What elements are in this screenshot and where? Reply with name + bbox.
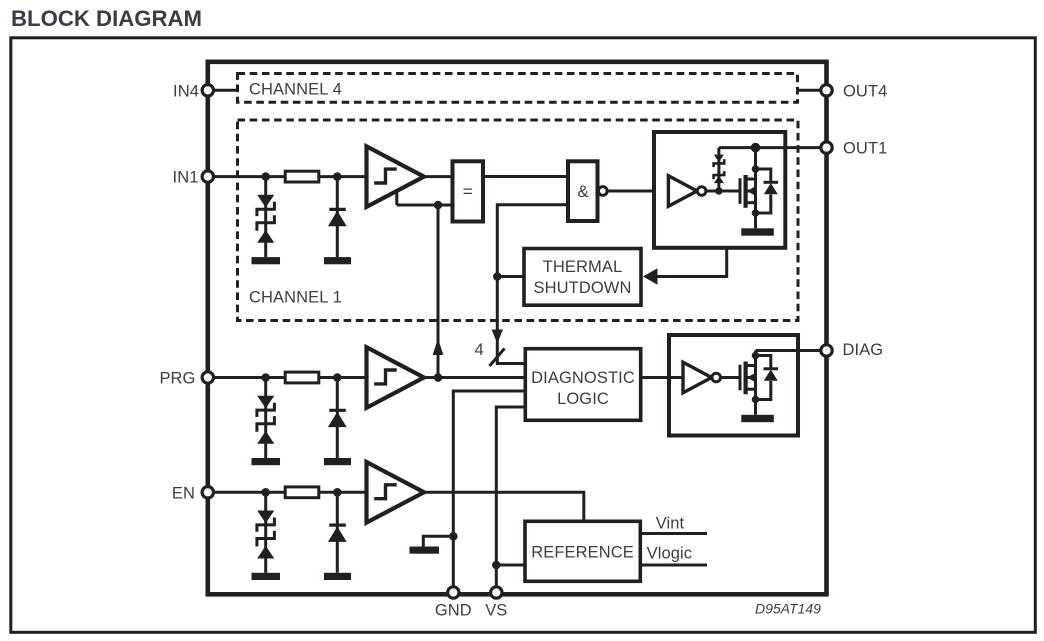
zener pair PRG clamp — [257, 378, 275, 459]
bus slash — [490, 349, 505, 367]
pin DIAG — [821, 345, 832, 356]
svg-text:=: = — [463, 182, 473, 201]
gate zener pair OUT1 — [714, 148, 725, 191]
wire IN4 to channel 4 — [208, 89, 238, 92]
ground (zener EN) — [252, 573, 281, 580]
diagnostic logic block — [525, 349, 640, 421]
wire IN1 schmitt feedback — [397, 191, 453, 205]
wire EN schmitt out to reference — [423, 492, 584, 521]
zener pair IN1 clamp — [257, 177, 275, 258]
node drain DIAG — [752, 352, 760, 360]
wire channel 4 to OUT4 — [797, 89, 827, 92]
svg-text:DIAGNOSTIC: DIAGNOSTIC — [531, 369, 635, 387]
channel 1 dashed box — [238, 120, 799, 321]
mosfet DIAG — [740, 351, 756, 415]
svg-text:IN1: IN1 — [173, 169, 199, 187]
svg-text:Vint: Vint — [656, 515, 685, 533]
ground (zener IN1) — [252, 257, 281, 264]
resistor PRG series — [285, 372, 319, 383]
node OUT1 drain junction — [751, 143, 761, 153]
IC boundary — [208, 62, 827, 595]
comparator block = — [453, 161, 484, 221]
node source OUT1 — [752, 209, 760, 217]
wire drain to OUT1 pin — [719, 146, 827, 149]
svg-text:IN4: IN4 — [173, 82, 199, 100]
inverter bubble DIAG — [712, 373, 721, 382]
inverter DIAG — [683, 362, 712, 393]
node GND stub junction — [449, 532, 458, 541]
arrowhead bus down — [492, 330, 503, 344]
AND gate & — [568, 161, 598, 221]
node drain OUT1 — [752, 165, 760, 173]
ground (zener PRG) — [252, 458, 281, 465]
node IN1 junction 2 — [333, 172, 342, 181]
pin OUT4 — [821, 85, 832, 96]
arrowhead program line up — [433, 339, 444, 356]
arrowhead into thermal shutdown — [643, 268, 658, 284]
ground (driver OUT1) — [741, 228, 774, 235]
inverter OUT1 — [668, 176, 697, 207]
svg-text:4: 4 — [475, 341, 484, 359]
thermal shutdown block — [524, 249, 641, 306]
output driver block DIAG — [669, 335, 798, 436]
svg-text:VS: VS — [485, 602, 507, 620]
schmitt trigger EN — [367, 462, 425, 523]
diode EN clamp — [328, 492, 347, 573]
wire AND to driver — [607, 190, 668, 193]
output driver block OUT1 — [654, 132, 785, 248]
node feedback junction — [434, 201, 443, 210]
pin IN4 — [202, 85, 213, 96]
node VS reference junction — [492, 561, 501, 570]
node EN junction 2 — [333, 488, 342, 497]
svg-text:&: & — [577, 182, 589, 201]
wire comparator to AND gate — [483, 175, 568, 178]
resistor IN1 series — [285, 171, 319, 182]
wire driver to thermal shutdown — [656, 248, 727, 277]
zener pair EN clamp — [257, 492, 275, 573]
wire VS to reference — [496, 564, 525, 567]
node source DIAG — [752, 396, 760, 404]
node PRG junction 2 — [333, 373, 342, 382]
mosfet OUT1 — [740, 148, 756, 229]
inverter bubble OUT1 — [697, 187, 706, 196]
body diode OUT1 — [756, 169, 779, 213]
svg-text:EN: EN — [172, 484, 195, 502]
wire thermal junction to thermal shutdown — [497, 275, 524, 278]
svg-text:BLOCK DIAGRAM: BLOCK DIAGRAM — [11, 6, 202, 31]
svg-text:DIAG: DIAG — [843, 341, 884, 359]
node IN1 junction 1 — [261, 172, 270, 181]
wire GND rail — [453, 391, 525, 593]
wire program line down — [437, 205, 440, 378]
wire PRG schmitt out to diagnostic logic — [423, 376, 525, 379]
svg-text:REFERENCE: REFERENCE — [531, 544, 634, 562]
ground (driver DIAG) — [741, 415, 774, 422]
schmitt trigger PRG — [367, 347, 425, 408]
diode PRG clamp — [328, 378, 347, 459]
wire drain to DIAG pin — [756, 349, 827, 352]
svg-text:GND: GND — [435, 602, 472, 620]
wire Vlogic output — [640, 564, 707, 567]
ground (diode IN1) — [324, 257, 351, 264]
svg-text:PRG: PRG — [159, 370, 195, 388]
channel 4 dashed box — [238, 74, 798, 103]
schmitt trigger IN1 — [367, 146, 425, 207]
reference block — [525, 521, 640, 581]
wire inverter to gate OUT1 — [697, 190, 740, 193]
svg-text:CHANNEL 4: CHANNEL 4 — [249, 81, 342, 99]
body diode DIAG — [756, 356, 779, 400]
AND output bubble — [598, 187, 607, 196]
wire diagnostic bus down — [497, 277, 525, 364]
wire diagnostic logic to DIAG driver — [641, 376, 683, 379]
node PRG junction 1 — [261, 373, 270, 382]
svg-text:CHANNEL 1: CHANNEL 1 — [249, 289, 342, 307]
node thermal junction — [493, 272, 502, 281]
pin VS — [491, 587, 502, 598]
svg-text:THERMAL: THERMAL — [543, 258, 623, 276]
ground stub internal — [423, 536, 453, 546]
pin EN — [202, 487, 213, 498]
wire inverter to gate DIAG — [712, 376, 740, 379]
wire AND lower input — [497, 205, 568, 277]
svg-text:SHUTDOWN: SHUTDOWN — [534, 279, 632, 297]
svg-text:OUT4: OUT4 — [843, 82, 887, 100]
pin PRG — [202, 372, 213, 383]
wire PRG input rail — [208, 376, 367, 379]
ground (diode EN) — [324, 573, 351, 580]
wire IN1 input rail — [208, 175, 367, 178]
wire VS rail — [496, 407, 525, 593]
diode IN1 clamp — [328, 177, 347, 258]
ground (diode PRG) — [324, 458, 351, 465]
wire IN1 schmitt out to comparator — [423, 175, 453, 178]
node EN junction 1 — [261, 488, 270, 497]
node gate OUT1 — [715, 187, 723, 195]
pin GND — [448, 587, 459, 598]
svg-text:Vlogic: Vlogic — [647, 545, 693, 563]
wire Vint output — [640, 532, 707, 535]
svg-text:D95AT149: D95AT149 — [755, 601, 821, 617]
svg-text:LOGIC: LOGIC — [557, 390, 609, 408]
pin IN1 — [202, 171, 213, 182]
resistor EN series — [285, 487, 319, 498]
node PRG output junction — [434, 373, 443, 382]
svg-text:OUT1: OUT1 — [843, 140, 887, 158]
wire EN input rail — [208, 491, 367, 494]
pin OUT1 — [821, 142, 832, 153]
